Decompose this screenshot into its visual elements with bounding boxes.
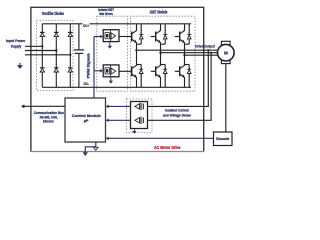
isolation amp A2 (voltage sense) xyxy=(135,117,143,124)
svg-text:Supply: Supply xyxy=(11,44,22,49)
diode D8 (across Q2) xyxy=(163,24,167,44)
encoder box xyxy=(214,132,233,146)
svg-text:Input Power: Input Power xyxy=(6,38,26,43)
svg-text:Drive Output: Drive Output xyxy=(195,43,215,48)
svg-text:and Voltage Sense: and Voltage Sense xyxy=(163,113,192,118)
diode D7 (across Q1) xyxy=(139,24,143,44)
wire current sense tap phase 1 xyxy=(148,49,210,106)
wire drive output phase 1 xyxy=(137,49,218,51)
ground (control module, signal) xyxy=(93,142,98,150)
label Input Power Supply xyxy=(6,38,26,49)
wire motor to encoder xyxy=(225,64,227,132)
diode D9 (across Q3) xyxy=(187,24,191,44)
svg-text:Ethernet: Ethernet xyxy=(43,119,54,124)
input phase wire A xyxy=(25,45,44,47)
diode D6 (bottom leg3) xyxy=(68,68,73,72)
wire encoder feedback to control module xyxy=(106,137,214,141)
svg-text:IGBT Module: IGBT Module xyxy=(150,10,168,15)
DC+ bus rail xyxy=(42,23,191,25)
rectifier leg 3 wire xyxy=(69,24,71,88)
node phase2 column wire xyxy=(159,44,161,64)
diode D2 (top leg2) xyxy=(54,32,59,36)
IGBT Q5 (bottom, phase 2) xyxy=(151,65,165,88)
wire driver U1 output to IGBT Q1 gate xyxy=(119,36,132,38)
rectifier leg 1 wire xyxy=(41,24,43,88)
label Communication Bus RS-485, CAN, Ethernet xyxy=(34,110,64,124)
diode D10 (across Q4) xyxy=(139,65,143,88)
diode D12 (across Q6) xyxy=(187,65,191,88)
node phase3 column wire xyxy=(183,44,185,64)
isolation amp A1 (current sense) xyxy=(135,103,143,110)
svg-text:Encoder: Encoder xyxy=(216,137,230,141)
gate driver U1 xyxy=(103,30,119,42)
label Isolated IGBT Gate Drivers xyxy=(98,7,114,16)
ground (input side) xyxy=(17,63,23,69)
wire drive output phase 2 xyxy=(161,52,218,54)
current/voltage sense module box xyxy=(131,102,148,129)
DC bus capacitor C1 xyxy=(74,24,84,88)
DC- bus rail xyxy=(42,86,191,88)
motor M1 xyxy=(218,41,235,63)
diode D4 (bottom leg1) xyxy=(40,68,45,72)
input phase wire B xyxy=(25,49,58,51)
svg-text:AC Motor Drive: AC Motor Drive xyxy=(154,145,181,150)
wire sense output 2 to control module xyxy=(106,119,131,123)
IGBT Q4 (bottom, phase 1) xyxy=(132,65,142,88)
label DC+ xyxy=(82,23,89,28)
ground (driver U2) xyxy=(109,77,113,84)
wire communication bus (arrow out) xyxy=(21,104,65,108)
control module box xyxy=(65,98,106,142)
rectifier leg 2 wire xyxy=(55,24,57,88)
isolated current and voltage sense dashed box xyxy=(127,99,153,133)
IGBT Q6 (bottom, phase 3) xyxy=(175,65,189,88)
PWM signal wire from control module xyxy=(94,35,103,98)
svg-text:Gate Drivers: Gate Drivers xyxy=(99,11,113,16)
rectifier diodes dashed box xyxy=(37,21,74,91)
svg-text:PWM Signals: PWM Signals xyxy=(85,52,90,78)
IGBT Q3 (top, phase 3) xyxy=(175,24,189,44)
wire driver U2 output to IGBT Q4 gate xyxy=(119,70,132,72)
IGBT Q2 (top, phase 2) xyxy=(151,24,165,44)
diode D1 (top leg1) xyxy=(40,32,45,36)
svg-text:M: M xyxy=(224,50,228,55)
svg-text:Isolated Current: Isolated Current xyxy=(165,107,189,112)
wire drive output phase 3 xyxy=(185,54,218,56)
diode D3 (top leg3) xyxy=(68,32,73,36)
diode D11 (across Q5) xyxy=(163,65,167,88)
svg-text:µP: µP xyxy=(84,118,89,123)
IGBT module dashed box xyxy=(130,16,195,91)
outer drive enclosure box xyxy=(30,7,204,151)
ground (driver U1) xyxy=(108,42,112,49)
svg-text:Rectifier Diodes: Rectifier Diodes xyxy=(42,11,64,16)
label Isolated Current and Voltage Sense xyxy=(163,107,192,117)
ground (sense module) xyxy=(132,129,136,134)
ground (control module, earth) xyxy=(83,147,96,156)
svg-text:DC-: DC- xyxy=(84,82,90,86)
diode D5 (bottom leg2) xyxy=(54,68,59,72)
svg-text:DC+: DC+ xyxy=(83,24,89,28)
wire sense output 1 to control module xyxy=(106,105,131,109)
svg-text:Control Module: Control Module xyxy=(72,113,102,118)
gate driver U2 xyxy=(103,65,119,77)
wire current sense tap phase 2 xyxy=(148,52,213,121)
isolated IGBT gate drivers dashed box xyxy=(97,16,128,91)
node phase1 column wire xyxy=(135,44,137,64)
input phase wire C xyxy=(25,54,72,56)
IGBT Q1 (top, phase 1) xyxy=(132,24,142,44)
